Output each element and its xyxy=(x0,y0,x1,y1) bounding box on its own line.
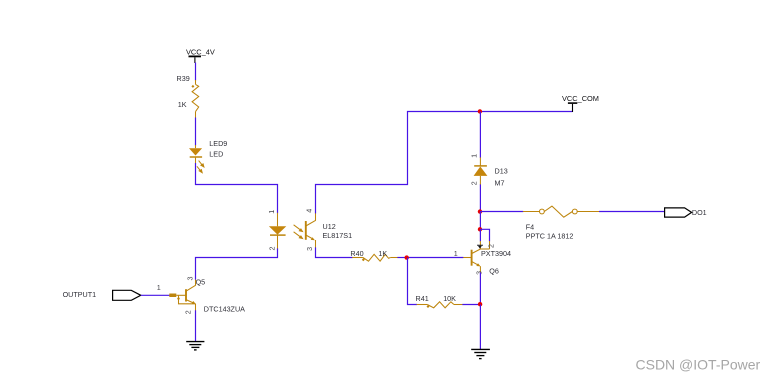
pin 3 xyxy=(315,240,317,248)
svg-text:2: 2 xyxy=(487,244,496,248)
svg-text:1K: 1K xyxy=(178,100,187,109)
U12 LED triangle xyxy=(269,226,286,234)
wire U12 pin 3 to R40 xyxy=(316,247,353,257)
wire U12 pin 2 to Q5 collector xyxy=(196,248,278,279)
emitter with arrow xyxy=(186,300,194,304)
transistor Q6 PXT3904 xyxy=(463,241,511,276)
wire node D to Q6 collector pins xyxy=(480,229,489,241)
svg-text:2: 2 xyxy=(183,310,192,314)
wire Q6 emitter to node B xyxy=(479,272,481,304)
svg-text:1K: 1K xyxy=(378,249,387,258)
wire U12 pin 4 to VCC_COM rail xyxy=(316,112,573,214)
wire R41 to node B xyxy=(462,304,480,306)
ground under Q6 xyxy=(471,349,490,358)
wire node B to ground xyxy=(479,305,481,350)
internal resistor loop xyxy=(179,296,196,304)
svg-text:DTC143ZUA: DTC143ZUA xyxy=(204,304,245,313)
base pin xyxy=(463,257,472,259)
svg-text:U12: U12 xyxy=(323,222,336,231)
pin-1 marker of R39 xyxy=(191,85,194,88)
svg-text:Q5: Q5 xyxy=(196,278,206,287)
U12 light arrows xyxy=(294,225,303,239)
svg-text:F4: F4 xyxy=(526,222,534,231)
svg-text:4: 4 xyxy=(305,209,314,213)
svg-text:3: 3 xyxy=(305,247,314,251)
port DO1 xyxy=(665,208,707,217)
svg-text:CSDN @IOT-Power: CSDN @IOT-Power xyxy=(636,357,761,373)
svg-text:PPTC 1A 1812: PPTC 1A 1812 xyxy=(526,232,574,241)
wire R40 to node A xyxy=(397,257,407,259)
svg-text:1: 1 xyxy=(157,283,161,292)
transistor Q5 DTC143ZUA xyxy=(169,277,245,315)
svg-text:1: 1 xyxy=(267,210,276,214)
pin-1 marker of R41 xyxy=(427,305,430,308)
wire VCC_4V to R39 xyxy=(195,63,197,81)
wire node C to F4 xyxy=(480,211,523,213)
wire node A to R41 xyxy=(408,258,418,305)
svg-text:OUTPUT1: OUTPUT1 xyxy=(63,290,97,299)
fuse F4 PPTC xyxy=(523,206,600,217)
svg-text:1: 1 xyxy=(454,249,458,258)
LED9 light arrows xyxy=(197,161,204,173)
svg-text:R39: R39 xyxy=(177,74,190,83)
svg-text:3: 3 xyxy=(185,277,194,281)
junction node D (Q6 collector) xyxy=(478,227,482,231)
svg-text:EL817S1: EL817S1 xyxy=(323,231,353,240)
wire node C to node D xyxy=(479,212,481,230)
base bar xyxy=(471,250,473,266)
wire R39 to LED9 xyxy=(195,118,197,146)
svg-text:2: 2 xyxy=(268,247,277,251)
collector input arrow xyxy=(477,244,483,246)
svg-text:R41: R41 xyxy=(416,294,429,303)
port OUTPUT1 xyxy=(63,290,141,300)
svg-text:R40: R40 xyxy=(350,249,363,258)
svg-text:D13: D13 xyxy=(495,167,508,176)
LED LED9 xyxy=(189,139,227,173)
wire LED9 to U12 pin 1 xyxy=(196,163,278,213)
svg-text:DO1: DO1 xyxy=(692,208,707,217)
power symbol VCC_4V xyxy=(186,47,215,63)
junction node VCC rail / D13 xyxy=(478,109,482,113)
resistor R41 xyxy=(417,302,463,308)
U12 phototransistor xyxy=(305,221,307,240)
ground under Q5 xyxy=(186,342,204,350)
svg-text:2: 2 xyxy=(469,181,478,185)
pin 1 xyxy=(277,213,279,227)
svg-text:M7: M7 xyxy=(495,178,505,187)
svg-text:10K: 10K xyxy=(443,294,456,303)
junction node C (fuse tap) xyxy=(478,209,482,213)
wire D13 to node C xyxy=(479,184,481,211)
svg-text:VCC_4V: VCC_4V xyxy=(186,47,215,56)
svg-text:Q6: Q6 xyxy=(489,267,499,276)
pin 4 xyxy=(315,213,317,221)
svg-text:LED9: LED9 xyxy=(209,139,227,148)
svg-text:VCC_COM: VCC_COM xyxy=(562,94,599,103)
diode D13 M7 xyxy=(469,154,507,188)
junction node A xyxy=(405,255,409,259)
internal base resistor xyxy=(169,294,176,298)
optocoupler U12 EL817S1 xyxy=(267,209,352,251)
pin 2 xyxy=(277,236,279,249)
collector xyxy=(186,285,196,291)
emitter pin xyxy=(479,266,481,273)
svg-text:PXT3904: PXT3904 xyxy=(481,249,511,258)
svg-text:LED: LED xyxy=(209,150,223,159)
wire F4 to port DO1 xyxy=(599,211,665,213)
svg-text:3: 3 xyxy=(475,271,484,275)
resistor R39 xyxy=(192,80,199,118)
pin-1 marker of R40 xyxy=(362,258,365,261)
wire OUTPUT1 to Q5 xyxy=(141,294,170,296)
svg-text:1: 1 xyxy=(469,154,478,158)
resistor R40 xyxy=(352,254,398,261)
wire Q5 emitter to ground xyxy=(195,310,197,341)
wire node A to Q6 base xyxy=(408,257,464,259)
power symbol VCC_COM xyxy=(562,94,599,112)
base bar xyxy=(185,289,187,301)
wire rail to D13 xyxy=(479,112,481,158)
junction node B xyxy=(478,302,482,306)
